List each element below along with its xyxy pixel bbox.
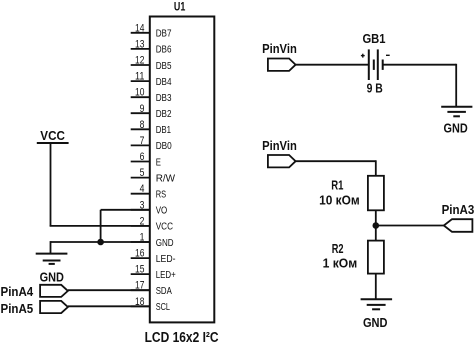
svg-text:DB2: DB2 bbox=[156, 109, 172, 120]
svg-text:12: 12 bbox=[135, 55, 144, 67]
svg-text:SDA: SDA bbox=[156, 286, 172, 297]
svg-text:PinVin: PinVin bbox=[262, 138, 297, 153]
battery GB1 bbox=[369, 49, 383, 80]
svg-text:PinA5: PinA5 bbox=[1, 301, 34, 316]
wire: R2 bottom to ground bbox=[375, 274, 377, 300]
svg-text:DB3: DB3 bbox=[156, 93, 172, 104]
wire: VCC symbol down to VCC pin row bbox=[50, 143, 52, 226]
wire: ground net horizontal to U1 pin 1 GND bbox=[51, 241, 150, 243]
wire: down to ground (battery return) bbox=[455, 64, 457, 107]
svg-text:LCD 16x2 I²C: LCD 16x2 I²C bbox=[145, 330, 219, 346]
svg-text:8: 8 bbox=[140, 119, 145, 131]
ground symbol (battery return) bbox=[441, 107, 472, 117]
svg-text:9: 9 bbox=[140, 103, 145, 115]
svg-text:GND: GND bbox=[363, 315, 388, 330]
svg-text:GND: GND bbox=[40, 270, 64, 285]
svg-text:LED+: LED+ bbox=[156, 270, 176, 281]
svg-text:DB7: DB7 bbox=[156, 29, 172, 40]
svg-text:VCC: VCC bbox=[40, 128, 65, 143]
svg-text:VCC: VCC bbox=[156, 222, 173, 233]
wire: VCC to U1 pin 2 bbox=[50, 225, 150, 227]
svg-text:SCL: SCL bbox=[156, 302, 171, 313]
connector PinA5 (flag symbol) bbox=[40, 301, 68, 313]
wire: pin stub 5 (R/W) of U1 bbox=[131, 177, 150, 179]
svg-text:RS: RS bbox=[156, 190, 167, 201]
svg-text:14: 14 bbox=[135, 22, 144, 34]
wire: pin stub 18 (SCL) of U1 bbox=[131, 305, 150, 307]
svg-text:LED-: LED- bbox=[156, 254, 176, 265]
svg-text:13: 13 bbox=[135, 38, 144, 50]
svg-text:7: 7 bbox=[140, 135, 145, 147]
polarity mark minus bbox=[386, 54, 390, 56]
wire: pin stub 8 (DB1) of U1 bbox=[131, 128, 150, 130]
svg-text:R1: R1 bbox=[331, 178, 343, 193]
svg-text:R/W: R/W bbox=[156, 173, 176, 184]
wire: battery negative to corner bbox=[383, 64, 457, 66]
svg-text:10 кОм: 10 кОм bbox=[319, 193, 360, 208]
svg-text:PinA4: PinA4 bbox=[1, 284, 34, 299]
svg-text:11: 11 bbox=[135, 71, 144, 83]
svg-text:VO: VO bbox=[156, 206, 168, 217]
svg-text:10: 10 bbox=[135, 87, 144, 99]
svg-text:U1: U1 bbox=[174, 2, 186, 14]
wire: pin stub 3 (VO) of U1 bbox=[131, 209, 150, 211]
ground symbol (divider return) bbox=[361, 299, 393, 309]
svg-text:GND: GND bbox=[444, 121, 468, 136]
svg-text:R2: R2 bbox=[332, 241, 344, 256]
wire: PinVin to battery positive bbox=[296, 64, 369, 66]
svg-text:GND: GND bbox=[156, 238, 174, 249]
connector PinVin (lower, flag symbol) bbox=[268, 155, 296, 167]
wire: down into R1 bbox=[375, 160, 377, 176]
wire: pin stub 11 (DB4) of U1 bbox=[131, 80, 150, 82]
wire: pin stub 13 (DB6) of U1 bbox=[131, 48, 150, 50]
svg-text:1 кОм: 1 кОм bbox=[323, 255, 358, 270]
IC U1 body: LCD module rectangle bbox=[150, 17, 215, 323]
polarity mark + bbox=[361, 54, 365, 58]
svg-text:9 В: 9 В bbox=[367, 80, 383, 95]
connector PinVin (top, flag symbol) bbox=[268, 59, 296, 71]
svg-text:DB0: DB0 bbox=[156, 141, 172, 152]
junction: divider midpoint bbox=[373, 222, 380, 229]
wire: PinA4 to U1 pin 17 SDA bbox=[68, 289, 150, 291]
svg-text:PinA3: PinA3 bbox=[442, 202, 474, 217]
resistor R2 bbox=[368, 241, 384, 274]
wire: pin stub 15 (LED+) of U1 bbox=[131, 273, 150, 275]
power symbol VCC bbox=[37, 142, 69, 144]
wire: drop from GND net into ground symbol bbox=[50, 241, 52, 254]
wire: pin stub 14 (DB7) of U1 bbox=[131, 32, 150, 34]
wire: junction to PinA3 bbox=[376, 225, 444, 227]
svg-text:E: E bbox=[156, 157, 161, 168]
connector PinA4 (flag symbol) bbox=[40, 285, 68, 297]
wire: pin stub 2 (VCC) of U1 bbox=[131, 225, 150, 227]
wire: pin stub 1 (GND) of U1 bbox=[131, 241, 150, 243]
svg-text:6: 6 bbox=[140, 151, 145, 163]
svg-text:DB4: DB4 bbox=[156, 77, 172, 88]
wire: pin stub 6 (E) of U1 bbox=[131, 161, 150, 163]
wire: pin stub 16 (LED-) of U1 bbox=[131, 257, 150, 259]
wire: pin stub 7 (DB0) of U1 bbox=[131, 144, 150, 146]
wire: PinVin to divider top bbox=[296, 160, 376, 162]
ground symbol (left, LCD GND) bbox=[36, 254, 68, 264]
wire: U1 pin 3 VO horizontal bbox=[101, 209, 150, 211]
svg-text:15: 15 bbox=[135, 264, 144, 276]
svg-text:5: 5 bbox=[140, 167, 145, 179]
resistor R1 bbox=[368, 176, 384, 211]
svg-text:DB6: DB6 bbox=[156, 45, 172, 56]
svg-text:DB1: DB1 bbox=[156, 125, 172, 136]
svg-text:16: 16 bbox=[135, 248, 144, 260]
wire: pin stub 4 (RS) of U1 bbox=[131, 193, 150, 195]
wire: R1 bottom to junction bbox=[375, 210, 377, 240]
svg-text:DB5: DB5 bbox=[156, 61, 172, 72]
connector PinA3 (flag symbol, points left) bbox=[444, 219, 473, 232]
wire: pin stub 10 (DB3) of U1 bbox=[131, 96, 150, 98]
wire: pin stub 9 (DB2) of U1 bbox=[131, 112, 150, 114]
wire: VO down to ground net bbox=[100, 210, 102, 242]
wire: pin stub 17 (SDA) of U1 bbox=[131, 289, 150, 291]
wire: PinA5 to U1 pin 18 SCL bbox=[68, 305, 150, 307]
junction: VO joins GND net bbox=[97, 239, 104, 246]
svg-text:PinVin: PinVin bbox=[262, 41, 297, 56]
wire: pin stub 12 (DB5) of U1 bbox=[131, 64, 150, 66]
svg-text:4: 4 bbox=[140, 183, 145, 195]
svg-text:GB1: GB1 bbox=[362, 31, 385, 46]
